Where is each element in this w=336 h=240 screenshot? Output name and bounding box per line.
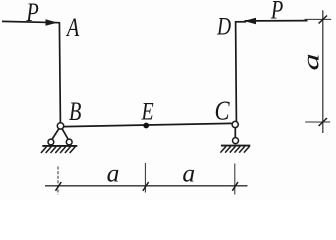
svg-text:a: a — [107, 159, 120, 188]
svg-text:P: P — [270, 0, 283, 25]
svg-text:A: A — [65, 13, 80, 42]
svg-text:B: B — [69, 97, 81, 126]
svg-text:a: a — [182, 158, 195, 187]
svg-text:E: E — [141, 97, 154, 125]
svg-text:P: P — [25, 0, 38, 27]
svg-text:C: C — [214, 97, 229, 127]
svg-text:D: D — [216, 12, 231, 40]
svg-text:a: a — [299, 53, 324, 70]
